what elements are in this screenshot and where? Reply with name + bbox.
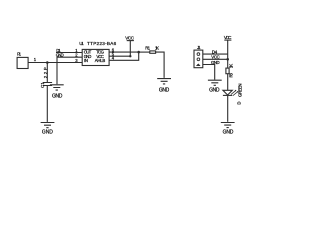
svg-text:VCC: VCC: [125, 35, 134, 40]
svg-text:IN: IN: [84, 58, 88, 63]
svg-text:GND: GND: [223, 129, 234, 135]
svg-text:TTP223-BA6: TTP223-BA6: [87, 41, 117, 46]
svg-text:U1: U1: [79, 41, 84, 46]
svg-text:P1: P1: [17, 52, 22, 57]
svg-text:C1: C1: [40, 82, 45, 88]
svg-text:GND: GND: [42, 130, 53, 136]
svg-text:AHLB: AHLB: [95, 58, 106, 63]
svg-text:GND: GND: [52, 94, 63, 100]
svg-text:R3: R3: [229, 72, 234, 77]
svg-text:1K: 1K: [229, 64, 234, 69]
svg-text:VCC: VCC: [224, 35, 232, 40]
svg-text:1K: 1K: [155, 45, 159, 50]
svg-text:GND: GND: [159, 88, 170, 94]
svg-text:GND: GND: [56, 52, 64, 57]
svg-text:D: D: [237, 101, 242, 104]
svg-text:J1: J1: [197, 45, 201, 50]
svg-text:GND: GND: [211, 60, 220, 65]
svg-text:R1: R1: [145, 45, 150, 50]
svg-text:GREEN: GREEN: [238, 84, 243, 98]
svg-text:GND: GND: [209, 87, 220, 93]
svg-text:22P: 22P: [43, 67, 48, 78]
